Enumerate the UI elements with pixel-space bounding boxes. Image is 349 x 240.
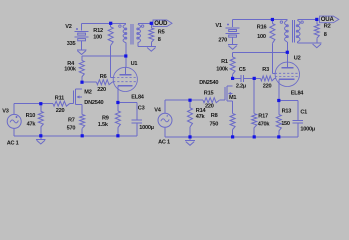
svg-text:OUD: OUD: [154, 20, 168, 27]
svg-text:M1: M1: [229, 95, 236, 101]
svg-text:AC 1: AC 1: [7, 140, 19, 146]
svg-text:750: 750: [210, 122, 219, 128]
svg-text:270: 270: [218, 37, 227, 43]
svg-text:V1: V1: [215, 23, 221, 29]
svg-text:1000µ: 1000µ: [300, 127, 314, 133]
svg-text:R17: R17: [258, 114, 268, 120]
svg-text:150: 150: [281, 121, 290, 127]
svg-text:V3: V3: [2, 108, 8, 114]
svg-text:220: 220: [97, 87, 106, 93]
svg-text:OUA: OUA: [321, 16, 335, 23]
svg-text:470k: 470k: [258, 121, 271, 127]
svg-text:R16: R16: [257, 25, 267, 31]
svg-text:R1: R1: [221, 59, 228, 65]
svg-text:100: 100: [257, 34, 266, 40]
svg-text:R8: R8: [211, 113, 218, 119]
svg-text:R11: R11: [55, 96, 64, 102]
svg-text:AC 1: AC 1: [158, 139, 170, 145]
svg-text:R13: R13: [282, 108, 292, 114]
svg-text:DN2540: DN2540: [199, 80, 218, 86]
svg-text:V2: V2: [65, 24, 71, 30]
svg-text:100: 100: [93, 34, 102, 40]
svg-text:1.5k: 1.5k: [98, 122, 109, 128]
svg-text:R6: R6: [100, 74, 107, 80]
svg-text:R15: R15: [204, 91, 214, 97]
svg-text:C3: C3: [138, 105, 145, 111]
svg-text:R9: R9: [102, 115, 109, 121]
svg-text:C1: C1: [300, 110, 307, 116]
svg-text:R2: R2: [324, 23, 331, 29]
svg-text:EL84: EL84: [131, 94, 145, 100]
svg-text:U1: U1: [131, 61, 138, 67]
svg-text:220: 220: [263, 84, 272, 90]
svg-text:100k: 100k: [64, 66, 77, 72]
svg-text:220: 220: [205, 103, 214, 109]
svg-text:M2: M2: [84, 89, 91, 95]
svg-text:R10: R10: [26, 113, 36, 119]
svg-text:R12: R12: [93, 28, 103, 34]
svg-text:47k: 47k: [27, 121, 37, 127]
svg-text:R14: R14: [196, 108, 207, 114]
svg-text:2.2µ: 2.2µ: [236, 84, 246, 90]
svg-text:100k: 100k: [216, 67, 229, 73]
svg-text:570: 570: [67, 125, 76, 131]
svg-text:335: 335: [67, 41, 76, 47]
svg-text:EL84: EL84: [291, 90, 305, 96]
svg-text:R7: R7: [68, 117, 75, 123]
svg-text:8: 8: [324, 32, 327, 38]
svg-text:R3: R3: [262, 67, 269, 73]
svg-text:1000µ: 1000µ: [139, 125, 153, 131]
svg-text:R5: R5: [158, 29, 165, 35]
svg-text:47k: 47k: [196, 114, 206, 120]
svg-text:DN2540: DN2540: [84, 100, 103, 106]
svg-text:C5: C5: [239, 67, 246, 73]
svg-text:220: 220: [56, 108, 65, 114]
svg-text:U2: U2: [294, 55, 301, 61]
svg-text:8: 8: [158, 37, 161, 43]
